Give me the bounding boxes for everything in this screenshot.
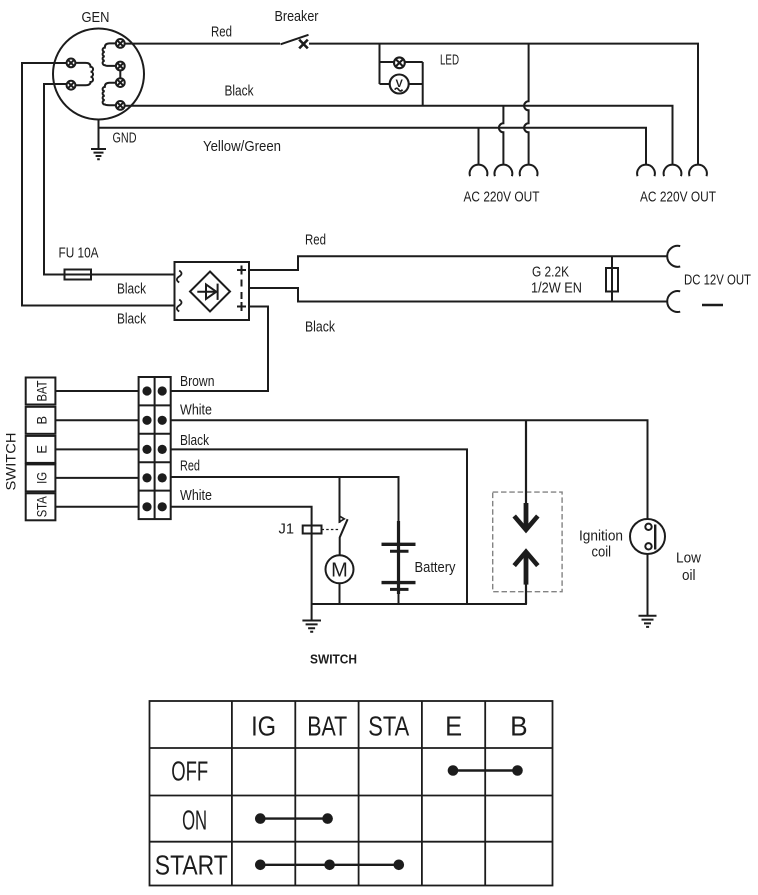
svg-text:STA: STA [368, 711, 409, 742]
svg-text:Black: Black [180, 432, 209, 449]
svg-text:Black: Black [225, 83, 254, 100]
svg-text:oil: oil [682, 567, 696, 584]
svg-text:STA: STA [34, 496, 50, 518]
svg-text:BAT: BAT [307, 711, 347, 742]
svg-text:B: B [510, 711, 528, 742]
svg-text:Ignition: Ignition [579, 528, 623, 545]
svg-text:ON: ON [182, 805, 207, 836]
svg-text:Red: Red [180, 457, 200, 474]
svg-text:E: E [445, 711, 462, 742]
svg-text:DC 12V OUT: DC 12V OUT [684, 272, 751, 289]
svg-text:IG: IG [34, 472, 50, 484]
svg-text:BAT: BAT [34, 380, 50, 401]
svg-text:E: E [34, 445, 50, 454]
svg-text:AC 220V OUT: AC 220V OUT [464, 189, 540, 206]
svg-text:Breaker: Breaker [275, 8, 319, 25]
svg-text:Yellow/Green: Yellow/Green [203, 138, 281, 155]
svg-text:White: White [180, 487, 212, 504]
svg-text:1/2W EN: 1/2W EN [531, 280, 582, 297]
svg-text:Black: Black [305, 319, 335, 336]
svg-text:Low: Low [676, 550, 701, 567]
svg-text:G 2.2K: G 2.2K [532, 264, 569, 281]
svg-text:White: White [180, 402, 212, 419]
svg-text:Brown: Brown [180, 373, 215, 390]
svg-text:GEN: GEN [82, 9, 110, 26]
svg-text:FU 10A: FU 10A [59, 245, 99, 262]
svg-text:J1: J1 [279, 521, 295, 538]
svg-text:Black: Black [117, 281, 146, 298]
svg-text:START: START [155, 850, 228, 881]
svg-text:Black: Black [117, 311, 146, 328]
svg-text:SWITCH: SWITCH [3, 433, 19, 491]
svg-text:GND: GND [113, 130, 137, 147]
svg-text:SWITCH: SWITCH [310, 653, 357, 667]
svg-text:B: B [34, 416, 50, 425]
svg-text:AC 220V OUT: AC 220V OUT [640, 189, 716, 206]
svg-text:Red: Red [305, 232, 326, 249]
svg-text:coil: coil [592, 544, 612, 561]
svg-text:IG: IG [251, 711, 276, 742]
svg-text:Red: Red [211, 24, 232, 41]
svg-text:OFF: OFF [171, 756, 208, 787]
svg-text:Battery: Battery [415, 559, 456, 576]
svg-text:M: M [331, 560, 348, 582]
svg-text:LED: LED [440, 52, 459, 69]
